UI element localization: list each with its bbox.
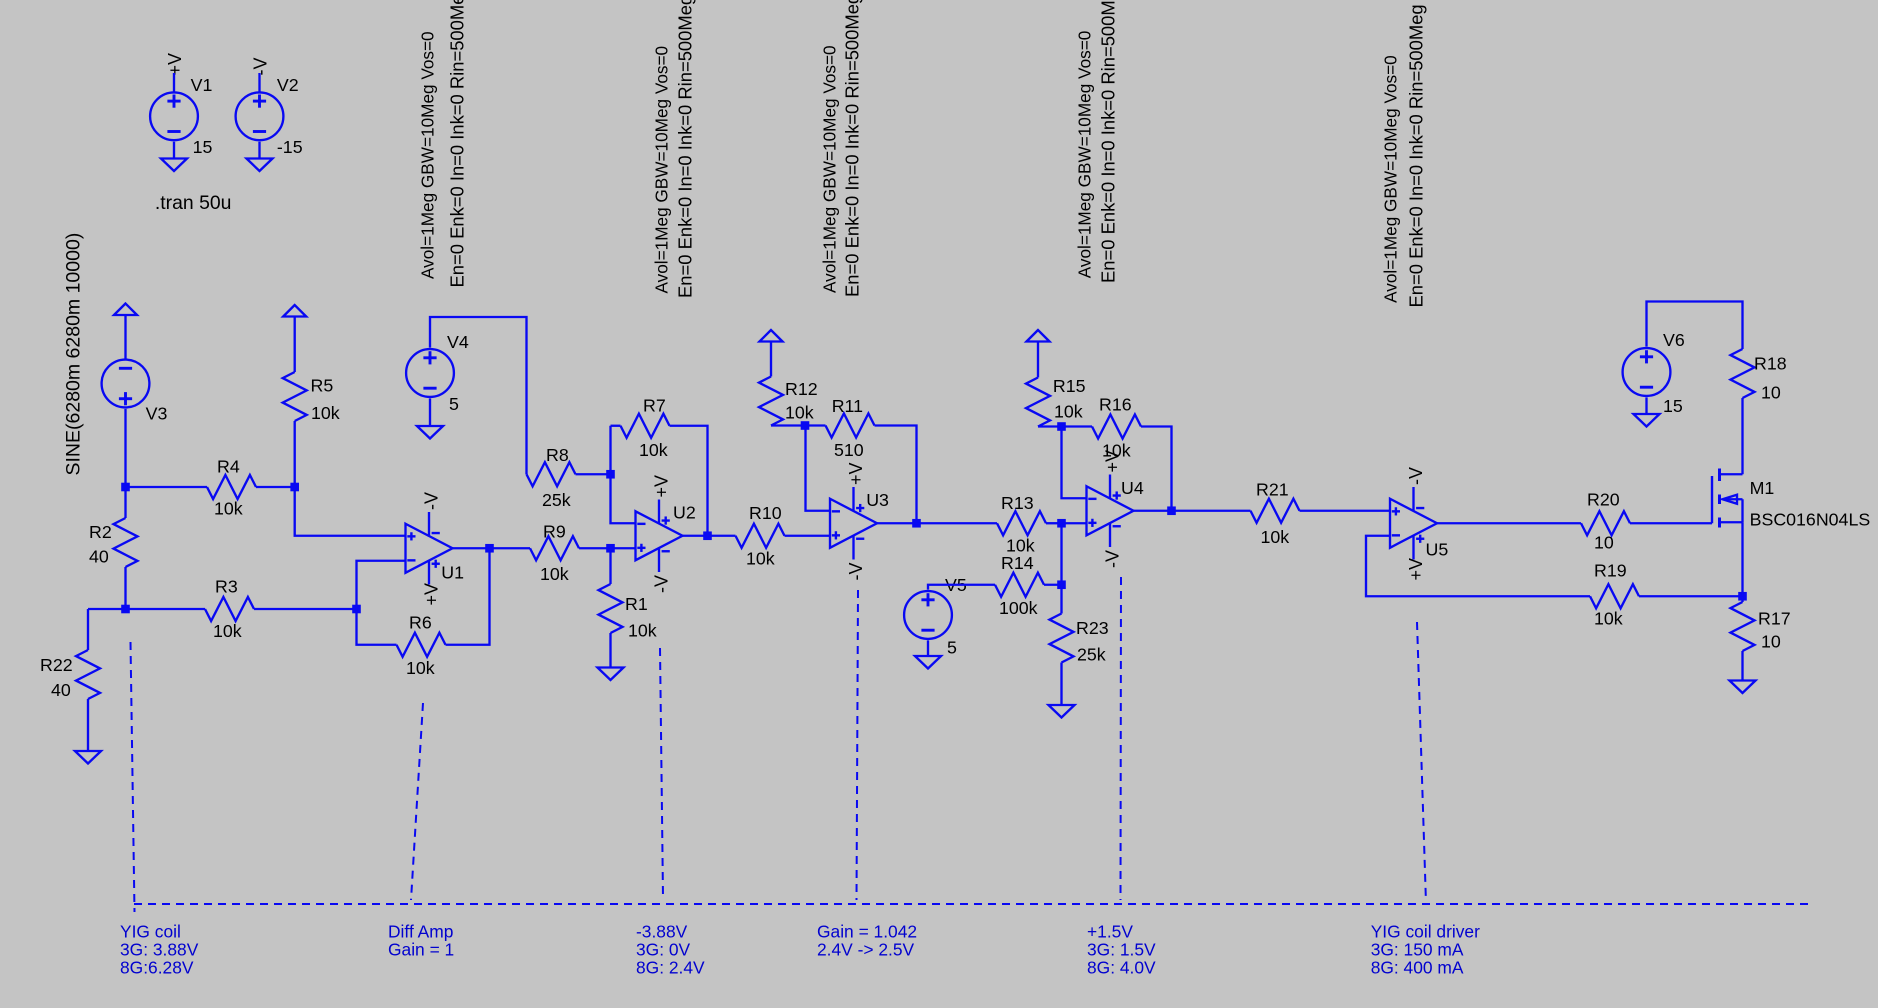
resistor R19 bbox=[1590, 584, 1639, 608]
wire bbox=[1037, 342, 1039, 378]
net label -V (U1 top) bbox=[421, 492, 441, 510]
svg-text:U2: U2 bbox=[673, 503, 696, 523]
value 10k bbox=[746, 549, 775, 569]
power flag arrow bbox=[283, 305, 306, 317]
annotation -3.88V bbox=[636, 922, 705, 978]
wire bbox=[124, 409, 126, 487]
label V5 bbox=[945, 575, 967, 595]
node bbox=[1057, 519, 1066, 528]
svg-text:10k: 10k bbox=[213, 621, 242, 641]
power flag arrow bbox=[114, 304, 137, 316]
label R12 bbox=[785, 379, 818, 399]
wire bbox=[806, 426, 831, 511]
svg-text:+V: +V bbox=[651, 475, 671, 498]
dashed divider horizontal bbox=[134, 903, 1808, 905]
wire bbox=[708, 535, 736, 537]
svg-text:R2: R2 bbox=[89, 522, 112, 542]
wire bbox=[1437, 522, 1581, 524]
svg-text:U5: U5 bbox=[1426, 540, 1449, 560]
wire bbox=[609, 548, 611, 584]
svg-text:R21: R21 bbox=[1256, 480, 1289, 500]
svg-text:V6: V6 bbox=[1663, 330, 1685, 350]
value -15 bbox=[277, 137, 303, 157]
label R9 bbox=[543, 522, 566, 542]
svg-text:R15: R15 bbox=[1053, 376, 1086, 396]
svg-text:-V: -V bbox=[651, 575, 671, 593]
svg-text:R7: R7 bbox=[643, 396, 666, 416]
dashed divider bbox=[1417, 622, 1426, 897]
svg-text:R10: R10 bbox=[749, 503, 782, 523]
value 15 bbox=[1663, 396, 1683, 416]
dashed divider bbox=[1120, 577, 1123, 900]
label R3 bbox=[215, 577, 238, 597]
wire bbox=[124, 487, 126, 518]
svg-text:R6: R6 bbox=[409, 613, 432, 633]
svg-text:+1.5V: +1.5V bbox=[1087, 922, 1133, 942]
svg-text:10k: 10k bbox=[540, 564, 569, 584]
node bbox=[1057, 422, 1066, 431]
svg-text:YIG coil: YIG coil bbox=[120, 922, 181, 942]
label R2 bbox=[89, 522, 112, 542]
net label +V (U4 top) bbox=[1102, 450, 1122, 473]
wire bbox=[670, 426, 708, 536]
resistor R4 bbox=[207, 475, 256, 499]
svg-text:R8: R8 bbox=[546, 445, 569, 465]
net label -V (U4 bottom) bbox=[1102, 550, 1122, 568]
value 10 bbox=[1761, 383, 1781, 403]
wire bbox=[1647, 302, 1743, 350]
label U5 bbox=[1426, 540, 1449, 560]
value 40 bbox=[89, 547, 109, 567]
net label +V (U5 bottom) bbox=[1406, 558, 1426, 581]
svg-text:+V: +V bbox=[1406, 558, 1426, 581]
resistor R15 bbox=[1026, 378, 1050, 427]
svg-text:15: 15 bbox=[193, 137, 213, 157]
svg-text:-V: -V bbox=[251, 58, 271, 76]
node bbox=[290, 483, 299, 492]
label U3 bbox=[866, 490, 889, 510]
value 10k bbox=[1102, 441, 1131, 461]
svg-text:25k: 25k bbox=[542, 490, 571, 510]
label SINE(6280m 6280m 10000) bbox=[63, 233, 85, 476]
node bbox=[606, 470, 615, 479]
svg-text:R1: R1 bbox=[625, 594, 648, 614]
resistor R10 bbox=[736, 524, 785, 548]
svg-text:R11: R11 bbox=[832, 396, 863, 416]
svg-text:-V: -V bbox=[1406, 467, 1426, 485]
wire bbox=[294, 317, 296, 373]
svg-text:-V: -V bbox=[846, 563, 866, 581]
ground bbox=[161, 159, 187, 172]
op-amp U2 parameters bbox=[652, 0, 696, 298]
wire bbox=[1172, 510, 1251, 512]
net label +V (U1 bottom) bbox=[421, 583, 441, 606]
resistor R6 bbox=[397, 633, 446, 657]
label R22 bbox=[40, 655, 73, 675]
annotation YIG coil bbox=[120, 922, 199, 978]
value 25k bbox=[542, 490, 571, 510]
svg-text:10: 10 bbox=[1761, 383, 1781, 403]
net label +V (U3 top) bbox=[846, 462, 866, 485]
svg-text:R13: R13 bbox=[1001, 493, 1034, 513]
wire bbox=[1741, 651, 1743, 681]
svg-text:+V: +V bbox=[846, 462, 866, 485]
power flag arrow bbox=[760, 330, 783, 342]
wire bbox=[295, 487, 406, 536]
wire bbox=[453, 547, 490, 549]
wire bbox=[1630, 522, 1712, 524]
svg-text:25k: 25k bbox=[1077, 645, 1106, 665]
svg-text:10k: 10k bbox=[628, 621, 657, 641]
label R14 bbox=[1001, 553, 1034, 573]
label V6 bbox=[1663, 330, 1685, 350]
ground bbox=[598, 668, 624, 681]
svg-text:BSC016N04LS: BSC016N04LS bbox=[1750, 510, 1871, 530]
svg-text:Avol=1Meg GBW=10Meg Vos=0: Avol=1Meg GBW=10Meg Vos=0 bbox=[418, 31, 438, 279]
wire bbox=[88, 608, 126, 610]
svg-text:V2: V2 bbox=[277, 75, 299, 95]
resistor R17 bbox=[1731, 602, 1755, 651]
wire bbox=[173, 142, 175, 159]
label R18 bbox=[1754, 354, 1787, 374]
net label -V (U5 top) bbox=[1406, 467, 1426, 485]
value 5 bbox=[947, 638, 957, 658]
wire bbox=[173, 73, 175, 92]
wire bbox=[928, 585, 995, 590]
svg-text:-V: -V bbox=[421, 492, 441, 510]
wire bbox=[294, 421, 296, 487]
value 10k bbox=[1006, 536, 1035, 556]
label R4 bbox=[217, 457, 240, 477]
svg-text:U3: U3 bbox=[866, 490, 889, 510]
label R11 bbox=[832, 396, 863, 416]
wire bbox=[1366, 536, 1590, 597]
dashed divider bbox=[857, 590, 859, 900]
wire bbox=[87, 699, 89, 751]
net label -V (U2 bottom) bbox=[651, 575, 671, 593]
svg-text:10k: 10k bbox=[406, 658, 435, 678]
svg-text:40: 40 bbox=[89, 547, 109, 567]
wire bbox=[875, 426, 917, 524]
label R23 bbox=[1076, 618, 1109, 638]
svg-text:3G: 0V: 3G: 0V bbox=[636, 940, 691, 960]
resistor R7 bbox=[621, 414, 670, 438]
svg-text:+V: +V bbox=[1102, 450, 1122, 473]
wire bbox=[1062, 522, 1087, 524]
dashed divider bbox=[131, 642, 135, 912]
op-amp U5 parameters bbox=[1381, 4, 1427, 307]
resistor R18 bbox=[1731, 349, 1755, 398]
wire bbox=[917, 522, 998, 524]
svg-text:40: 40 bbox=[51, 680, 71, 700]
voltage source V1 bbox=[150, 92, 198, 140]
value 100k bbox=[999, 598, 1038, 618]
svg-text:10: 10 bbox=[1594, 533, 1614, 553]
svg-text:V4: V4 bbox=[447, 332, 469, 352]
label R15 bbox=[1053, 376, 1086, 396]
op-amp U5 bbox=[1390, 487, 1437, 560]
svg-text:R18: R18 bbox=[1754, 354, 1787, 374]
annotation YIG coil driver bbox=[1371, 922, 1480, 978]
label R1 bbox=[625, 594, 648, 614]
wire bbox=[785, 535, 831, 537]
svg-text:8G:6.28V: 8G:6.28V bbox=[120, 958, 194, 978]
wire bbox=[771, 424, 805, 426]
wire bbox=[126, 608, 206, 610]
svg-text:YIG coil driver: YIG coil driver bbox=[1371, 922, 1480, 942]
value 10 bbox=[1594, 533, 1614, 553]
svg-text:5: 5 bbox=[947, 638, 957, 658]
wire bbox=[609, 633, 611, 668]
wire bbox=[611, 474, 636, 523]
svg-text:10k: 10k bbox=[639, 440, 668, 460]
svg-text:510: 510 bbox=[834, 440, 864, 460]
op-amp U4 parameters bbox=[1075, 0, 1119, 283]
op-amp U1 bbox=[406, 512, 453, 585]
svg-text:R5: R5 bbox=[311, 376, 334, 396]
wire bbox=[927, 640, 929, 656]
wire bbox=[429, 398, 431, 426]
ground bbox=[1730, 681, 1756, 694]
annotation +1.5V bbox=[1087, 922, 1156, 978]
svg-text:10: 10 bbox=[1761, 632, 1781, 652]
voltage source V2 bbox=[236, 92, 284, 140]
resistor R11 bbox=[826, 414, 875, 438]
value 15 bbox=[193, 137, 213, 157]
wire bbox=[1141, 427, 1172, 511]
dashed divider bbox=[411, 703, 423, 900]
node bbox=[1057, 580, 1066, 589]
dashed divider bbox=[660, 648, 663, 897]
node bbox=[1167, 506, 1176, 515]
value 10k bbox=[628, 621, 657, 641]
wire bbox=[576, 473, 611, 475]
label U1 bbox=[441, 563, 464, 583]
wire bbox=[357, 609, 397, 645]
wire bbox=[1741, 596, 1743, 602]
value 5 bbox=[449, 394, 459, 414]
wire bbox=[1038, 425, 1062, 427]
wire bbox=[1741, 522, 1743, 596]
spice directive .tran 50u bbox=[155, 192, 232, 214]
svg-text:R17: R17 bbox=[1758, 609, 1791, 629]
label V1 bbox=[191, 75, 213, 95]
svg-text:R20: R20 bbox=[1587, 490, 1620, 510]
svg-text:10k: 10k bbox=[785, 403, 814, 423]
svg-text:R16: R16 bbox=[1099, 395, 1132, 415]
annotation Gain = 1.042 bbox=[817, 922, 917, 960]
wire bbox=[611, 547, 636, 549]
value BSC016N04LS bbox=[1750, 510, 1871, 530]
voltage source V4 bbox=[406, 349, 454, 397]
svg-text:10k: 10k bbox=[746, 549, 775, 569]
svg-text:U1: U1 bbox=[441, 563, 464, 583]
wire bbox=[1134, 510, 1172, 512]
label R5 bbox=[311, 376, 334, 396]
value 510 bbox=[834, 440, 864, 460]
node bbox=[801, 421, 810, 430]
svg-text:Avol=1Meg GBW=10Meg Vos=0: Avol=1Meg GBW=10Meg Vos=0 bbox=[820, 45, 840, 293]
node bbox=[352, 605, 361, 614]
svg-text:10k: 10k bbox=[214, 499, 243, 519]
label R17 bbox=[1758, 609, 1791, 629]
value 10k bbox=[1594, 609, 1623, 629]
label R19 bbox=[1594, 561, 1627, 581]
value 10k bbox=[406, 658, 435, 678]
label V3 bbox=[146, 404, 168, 424]
wire bbox=[805, 424, 826, 426]
svg-text:3G: 3.88V: 3G: 3.88V bbox=[120, 940, 199, 960]
svg-text:Gain = 1: Gain = 1 bbox=[388, 940, 454, 960]
svg-text:M1: M1 bbox=[1750, 478, 1775, 498]
voltage source V6 bbox=[1623, 348, 1671, 396]
svg-text:-3.88V: -3.88V bbox=[636, 922, 688, 942]
value 10k bbox=[214, 499, 243, 519]
svg-text:V3: V3 bbox=[146, 404, 168, 424]
svg-text:8G: 400 mA: 8G: 400 mA bbox=[1371, 958, 1464, 978]
net label -V (V2) bbox=[251, 58, 271, 76]
node bbox=[912, 519, 921, 528]
label M1 bbox=[1750, 478, 1775, 498]
ground bbox=[247, 159, 273, 172]
label R16 bbox=[1099, 395, 1132, 415]
svg-text:Avol=1Meg GBW=10Meg Vos=0: Avol=1Meg GBW=10Meg Vos=0 bbox=[1075, 31, 1095, 279]
svg-text:En=0 Enk=0 In=0 Ink=0 Rin=500M: En=0 Enk=0 In=0 Ink=0 Rin=500Meg bbox=[1098, 0, 1119, 283]
wire bbox=[124, 567, 126, 609]
value 10k bbox=[1261, 527, 1290, 547]
svg-text:10k: 10k bbox=[1054, 402, 1083, 422]
wire bbox=[256, 486, 295, 488]
wire bbox=[1639, 595, 1743, 597]
node bbox=[485, 544, 494, 553]
svg-text:R22: R22 bbox=[40, 655, 73, 675]
svg-text:+V: +V bbox=[165, 53, 185, 76]
resistor R22 bbox=[76, 650, 100, 699]
svg-text:8G: 4.0V: 8G: 4.0V bbox=[1087, 958, 1156, 978]
label R6 bbox=[409, 613, 432, 633]
resistor R12 bbox=[759, 377, 783, 426]
wire bbox=[1060, 585, 1062, 614]
op-amp U4 bbox=[1087, 475, 1134, 548]
svg-text:R19: R19 bbox=[1594, 561, 1627, 581]
svg-text:U4: U4 bbox=[1121, 478, 1144, 498]
wire bbox=[430, 317, 527, 474]
label R10 bbox=[749, 503, 782, 523]
op-amp U3 bbox=[830, 487, 877, 560]
value 10k bbox=[311, 403, 340, 423]
svg-text:10k: 10k bbox=[1261, 527, 1290, 547]
label U2 bbox=[673, 503, 696, 523]
wire bbox=[1062, 425, 1093, 427]
wire bbox=[1060, 523, 1062, 585]
wire bbox=[683, 535, 708, 537]
svg-text:100k: 100k bbox=[999, 598, 1038, 618]
wire bbox=[258, 73, 260, 92]
net label +V (U2 top) bbox=[651, 475, 671, 498]
svg-text:-V: -V bbox=[1102, 550, 1122, 568]
net label +V (V1) bbox=[165, 53, 185, 76]
wire bbox=[1062, 427, 1087, 499]
svg-text:Gain = 1.042: Gain = 1.042 bbox=[817, 922, 917, 942]
svg-text:R4: R4 bbox=[217, 457, 240, 477]
net label -V (U3 bottom) bbox=[846, 563, 866, 581]
ground bbox=[1634, 414, 1660, 427]
ground bbox=[1049, 705, 1075, 718]
svg-text:Avol=1Meg GBW=10Meg Vos=0: Avol=1Meg GBW=10Meg Vos=0 bbox=[1381, 55, 1401, 303]
resistor R1 bbox=[599, 584, 623, 633]
label R20 bbox=[1587, 490, 1620, 510]
ground bbox=[75, 751, 101, 764]
node bbox=[1738, 592, 1747, 601]
svg-text:3G: 1.5V: 3G: 1.5V bbox=[1087, 940, 1156, 960]
voltage source V5 bbox=[904, 591, 952, 639]
svg-text:R14: R14 bbox=[1001, 553, 1034, 573]
svg-text:2.4V -> 2.5V: 2.4V -> 2.5V bbox=[817, 940, 915, 960]
resistor R23 bbox=[1050, 614, 1074, 663]
label R21 bbox=[1256, 480, 1289, 500]
value 10k bbox=[540, 564, 569, 584]
wire bbox=[1741, 398, 1743, 474]
label R13 bbox=[1001, 493, 1034, 513]
wire bbox=[609, 426, 611, 475]
svg-text:10k: 10k bbox=[311, 403, 340, 423]
wire bbox=[579, 547, 611, 549]
resistor R2 bbox=[114, 518, 138, 567]
svg-text:-15: -15 bbox=[277, 137, 303, 157]
svg-text:SINE(6280m 6280m 10000): SINE(6280m 6280m 10000) bbox=[63, 233, 85, 476]
wire bbox=[254, 608, 357, 610]
resistor R20 bbox=[1581, 511, 1630, 535]
value 10k bbox=[639, 440, 668, 460]
resistor R14 bbox=[995, 573, 1044, 597]
op-amp U3 parameters bbox=[820, 0, 863, 297]
node bbox=[703, 531, 712, 540]
value 10k bbox=[213, 621, 242, 641]
wire bbox=[1044, 584, 1062, 586]
wire bbox=[770, 342, 772, 377]
svg-text:15: 15 bbox=[1663, 396, 1683, 416]
annotation Diff Amp bbox=[388, 922, 454, 960]
svg-text:R9: R9 bbox=[543, 522, 566, 542]
wire bbox=[1060, 663, 1062, 706]
resistor R3 bbox=[205, 597, 254, 621]
transistor M1 bbox=[1712, 469, 1743, 528]
wire bbox=[1300, 510, 1391, 512]
svg-text:En=0 Enk=0 In=0 Ink=0 Rin=500M: En=0 Enk=0 In=0 Ink=0 Rin=500Meg bbox=[447, 0, 468, 288]
wire bbox=[357, 561, 406, 609]
value 10 bbox=[1761, 632, 1781, 652]
op-amp U2 bbox=[636, 500, 683, 573]
svg-text:5: 5 bbox=[449, 394, 459, 414]
node bbox=[121, 483, 130, 492]
label U4 bbox=[1121, 478, 1144, 498]
wire bbox=[87, 609, 89, 650]
svg-text:V1: V1 bbox=[191, 75, 213, 95]
value 10k bbox=[785, 403, 814, 423]
value 40 bbox=[51, 680, 71, 700]
resistor R9 bbox=[530, 536, 579, 560]
wire bbox=[1046, 522, 1062, 524]
svg-text:En=0 Enk=0 In=0 Ink=0 Rin=500M: En=0 Enk=0 In=0 Ink=0 Rin=500Meg bbox=[1406, 4, 1427, 307]
resistor R5 bbox=[283, 372, 307, 421]
label V2 bbox=[277, 75, 299, 95]
wire bbox=[1645, 397, 1647, 414]
wire bbox=[258, 142, 260, 159]
node bbox=[606, 544, 615, 553]
value 10k bbox=[1054, 402, 1083, 422]
label V4 bbox=[447, 332, 469, 352]
svg-text:R23: R23 bbox=[1076, 618, 1109, 638]
